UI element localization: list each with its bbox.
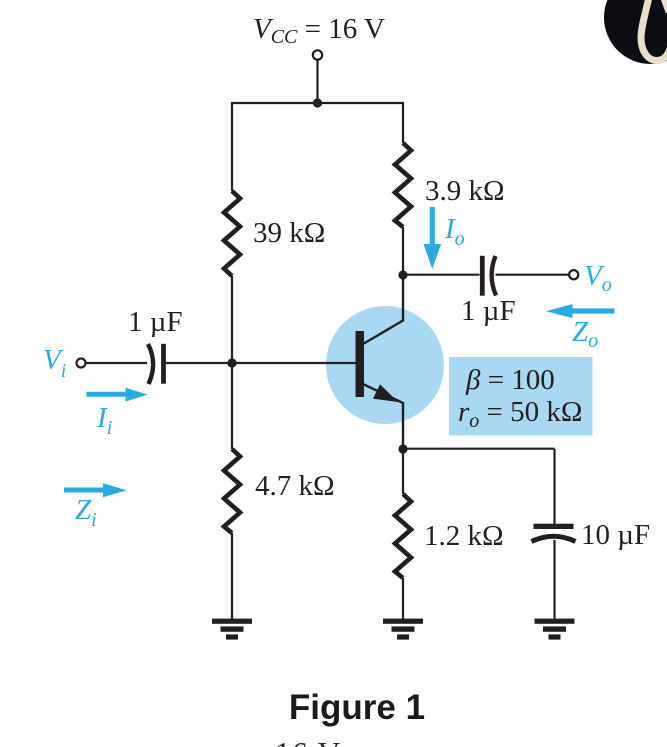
wire emitter node down [402,449,404,494]
terminal Vi [77,359,86,368]
ground right [535,619,575,640]
svg-text:Vi: Vi [43,344,66,382]
svg-text:Zo: Zo [572,316,598,352]
capacitor CE 10uF curved plate [532,536,576,541]
junction collector node [398,270,407,279]
resistor R1 39 kOhm [224,191,240,276]
wire C1 to base node [166,362,232,364]
svg-text:VCC = 16 V: VCC = 16 V [253,13,385,48]
junction VCC rail [313,98,322,107]
capacitor C2 1uF flat plate [480,256,485,296]
parameter box beta ro [449,357,593,436]
resistor R2 4.7 kOhm [224,449,240,533]
logo avatar top-right [604,0,667,64]
transistor Q1 base bar [356,331,365,397]
wire collector node to C2 [403,274,480,276]
capacitor CE 10uF flat plate [534,524,574,529]
svg-text:1 µF: 1 µF [461,295,516,327]
resistor RE 1.2 kOhm [395,494,411,578]
wire R2 to ground [231,533,233,620]
wire C2 to Vo [496,274,570,276]
capacitor C1 1uF curved plate [148,344,153,384]
svg-text:β = 100: β = 100 [465,364,555,396]
transistor Q1 collector lead [363,275,403,344]
svg-text:4.7 kΩ: 4.7 kΩ [255,470,335,502]
svg-text:Ii: Ii [96,402,112,439]
wire RE to ground [402,578,404,620]
arrow Zi [64,483,127,497]
terminal VCC [313,50,322,59]
svg-text:10 µF: 10 µF [581,519,650,551]
resistor RC 3.9 kOhm [395,143,411,227]
svg-text:1.2 kΩ: 1.2 kΩ [424,520,504,552]
svg-text:16 V: 16 V [275,735,342,747]
wire right branch upper [402,102,404,143]
wire RC to collector node [402,227,404,275]
svg-text:Vo: Vo [584,260,612,296]
arrow Io [424,207,442,269]
capacitor C2 1uF curved plate [492,256,496,296]
svg-text:39 kΩ: 39 kΩ [253,217,325,249]
svg-text:Io: Io [444,213,465,250]
transistor Q1 emitter arrowhead [373,384,398,402]
wire R1 to base node [231,276,233,363]
wire emitter node right [403,448,555,450]
ground left [212,619,252,640]
wire down to CE [553,449,555,524]
ground middle [383,619,423,640]
terminal Vo [569,270,578,279]
wire VCC down [316,60,318,103]
junction emitter node [398,444,407,453]
transistor Q1 highlight circle [326,306,444,424]
svg-text:Zi: Zi [75,494,97,531]
arrow Ii [86,388,147,402]
transistor Q1 emitter lead [363,384,403,449]
svg-text:Figure 1: Figure 1 [289,688,425,727]
capacitor C1 1uF flat plate [161,344,166,384]
wire CE to ground [553,540,555,620]
wire top rail [232,102,403,104]
wire left branch upper [231,102,233,191]
svg-text:3.9 kΩ: 3.9 kΩ [425,175,505,207]
svg-text:1 µF: 1 µF [128,306,183,338]
arrow Zo [546,304,615,318]
wire base node down [231,363,233,449]
wire Vi to C1 [86,362,148,364]
wire base [232,362,356,364]
junction base node [227,358,236,367]
